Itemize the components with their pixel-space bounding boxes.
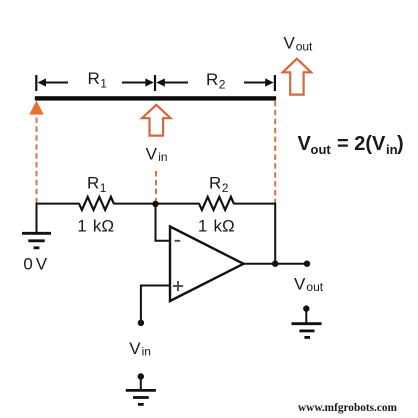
label R2 (circuit): [209, 174, 229, 196]
svg-text:2: 2: [219, 78, 226, 92]
watermark www.mfgrobots.com: [298, 402, 398, 414]
resistor R2: [199, 197, 234, 210]
svg-text:out: out: [296, 39, 313, 53]
svg-text:V: V: [36, 255, 48, 274]
dimension arrow R2 left: [156, 78, 188, 86]
wire: left segment to R1: [37, 203, 80, 205]
label Vout (output terminal): [294, 275, 324, 295]
lever bar: [35, 96, 276, 100]
op-amp inverting input minus sign: [175, 240, 181, 242]
svg-text:R: R: [87, 174, 99, 193]
wire: output: [244, 263, 308, 265]
svg-text:V: V: [146, 145, 158, 164]
wire: R1 to node: [113, 203, 199, 205]
svg-text:V: V: [129, 339, 141, 358]
svg-text:in: in: [386, 142, 398, 157]
svg-text:0: 0: [23, 255, 32, 274]
wire: left vertical to ground: [36, 203, 38, 234]
svg-text:V: V: [298, 133, 312, 155]
label 1 kOhm (R2): [198, 216, 235, 235]
label R2 (dimension): [206, 70, 226, 92]
ground (below Vin): [126, 373, 156, 404]
terminal dot Vout: [304, 261, 310, 267]
dimension tick middle: [154, 75, 156, 91]
dimension arrow R1 left: [38, 78, 69, 86]
op-amp non-inverting input plus sign: [173, 281, 183, 291]
svg-text:R: R: [209, 174, 221, 193]
label Vin (input terminal): [129, 339, 151, 359]
dimension tick left: [35, 75, 37, 91]
svg-text:V: V: [294, 275, 306, 294]
dashed line right (Vout): [274, 101, 276, 203]
svg-text:= 2(V: = 2(V: [337, 133, 386, 155]
svg-text:1: 1: [77, 216, 86, 235]
label Vin (under arrow): [146, 145, 168, 164]
svg-text:kΩ: kΩ: [214, 216, 235, 235]
wire: R2 to right corner and down to output: [233, 204, 275, 264]
label Vout (top): [284, 34, 314, 54]
svg-text:kΩ: kΩ: [93, 216, 114, 235]
fulcrum triangle (orange): [29, 101, 44, 115]
Vout block arrow (orange outline): [283, 59, 311, 95]
svg-text:out: out: [311, 142, 332, 157]
terminal dot Vin: [138, 320, 144, 326]
svg-text:1: 1: [100, 77, 107, 91]
label 0 V: [23, 255, 47, 274]
label R1 (circuit): [87, 174, 107, 196]
svg-text:www.mfgrobots.com: www.mfgrobots.com: [298, 402, 398, 414]
svg-text:1: 1: [198, 216, 207, 235]
dimension arrow R1 right: [122, 78, 154, 86]
resistor R1: [79, 197, 114, 210]
ground (below Vout): [292, 305, 322, 337]
node junction dot: [152, 201, 158, 207]
dimension tick right: [274, 75, 276, 91]
svg-text:1: 1: [100, 181, 107, 195]
svg-text:2: 2: [222, 181, 229, 195]
label R1 (dimension): [88, 69, 108, 91]
svg-text:in: in: [142, 345, 151, 359]
op-amp U1: [170, 227, 244, 302]
wire: node down to inverting input: [156, 204, 171, 241]
junction dot (feedback/output): [272, 261, 278, 267]
dashed line middle (Vin): [155, 171, 157, 204]
svg-text:in: in: [158, 150, 167, 164]
dimension arrow R2 right: [244, 78, 274, 86]
svg-text:R: R: [206, 70, 218, 89]
svg-text:V: V: [284, 34, 296, 53]
label 1 kOhm (R1): [77, 216, 114, 235]
formula Vout = 2(Vin): [298, 133, 404, 157]
wire: non-inverting input: [141, 286, 170, 323]
Vin block arrow (orange outline): [142, 105, 171, 136]
svg-text:): ): [397, 133, 404, 155]
svg-text:out: out: [306, 280, 323, 294]
svg-text:R: R: [88, 69, 100, 88]
ground (left): [22, 233, 51, 248]
dashed line left (0V): [36, 118, 38, 203]
